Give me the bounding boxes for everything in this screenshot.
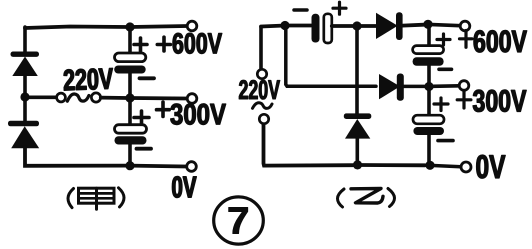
wire: left rail between diodes (upper part) [23,75,27,96]
label: (乙) [338,189,395,208]
wire: to +600V terminal [432,25,460,26]
wire: C2 bottom lead [128,144,132,165]
wire: C-series to shunt junction [332,24,353,28]
wire: C4 top lead [427,26,431,46]
plus mark C4 [437,34,450,45]
minus mark C-upper-left [140,76,155,80]
node: bottom rail / shunt diode junction [353,160,362,169]
node: +600V rail / C4 junction [423,20,432,29]
figure number circle 7 [214,197,264,244]
minus mark C4 [439,68,452,72]
label: 0V (left) [172,176,196,197]
terminal: +600V (left circuit) [187,21,197,31]
minus mark C-series [294,8,307,12]
wire: branch from top junction down to second row [286,28,376,87]
plus of +300V label (right) [457,91,471,109]
terminal: +600V (right circuit) [460,21,470,31]
plus of +300V label (left) [157,102,170,117]
node: middle rail / C junction [125,93,134,102]
wire: shunt junction to top diode [361,24,376,28]
wire: C4 bottom lead [427,66,431,85]
node: +300V rail junction [424,82,433,91]
wire: AC terminal to capacitor column and +300V terminal [101,96,188,101]
terminal: AC right [91,93,100,102]
node: top junction to lower branch [280,21,289,30]
minus mark C-lower-left [137,147,152,151]
plus mark C-lower-left [134,111,149,124]
wire: C2 top lead [128,99,132,125]
node: shunt diode top junction [352,21,361,30]
wire: C5 top lead [427,89,431,116]
terminal: AC bottom (right circuit) [259,114,268,123]
plus of +600V label (right) [460,31,473,48]
label: 600V (right) [474,30,527,52]
wire: to +300V terminal [433,84,459,88]
wire: left rail between junction and lower diode [23,98,27,121]
wire: shunt diode upper lead [355,28,359,114]
capacitor C4 plates [413,46,444,54]
node: bottom rail / C junction [125,161,134,170]
label: 220V (right) [239,80,280,99]
capacitor C-upper-left plates [115,53,146,62]
wire: C1 top lead [128,28,132,54]
node: junction left rail / AC wire [20,92,29,101]
label: 220V (left) [64,68,113,90]
capacitor C-lower-left plates [115,125,147,134]
wire: C1 bottom lead [128,73,132,97]
plus mark C-upper-left [134,38,147,52]
label: 600V (left) [173,33,222,54]
plus mark C5 [434,98,448,111]
AC tilde (right) [253,103,273,109]
wire: C5 bottom lead [427,135,431,166]
wire: left rail lower segment + bottom rail [25,147,187,167]
minus mark C5 [438,139,453,143]
terminal: AC top (right circuit) [257,69,266,78]
label: 300V (left) [171,104,226,125]
label: (甲) [68,188,124,210]
terminal: AC left [57,93,66,102]
terminal: 0V (left circuit) [187,162,197,172]
node: bottom rail / C5 junction [425,161,434,170]
capacitor C5 plates [413,115,444,124]
wire: bottom rail to 0V terminal [433,166,461,167]
wire: left rail upper segment [23,27,27,52]
capacitor C-series plates [312,14,320,43]
node: top rail / C1 junction [125,22,134,31]
terminal: 0V (right circuit) [461,162,471,172]
diode (middle, pointing right) [379,74,404,101]
wire: bottom rail middle segment [360,163,425,167]
terminal: +300V (left circuit) [187,94,197,104]
wire: top diode to C4 junction [403,23,425,28]
wire: input top lead [259,27,263,69]
plus mark C-series [333,2,346,14]
terminal: +300V (right circuit) [459,81,469,91]
diode (shunt, pointing up) [344,113,372,138]
wire: AC wire from left rail to left AC terminal [27,96,57,100]
label: 300V (right) [473,90,526,112]
diode (top, pointing right) [376,12,403,40]
label: 0V (right) [477,155,506,178]
diode (left upper, pointing up) [11,52,40,77]
plus of +600V label (left) [157,37,170,51]
wire: middle diode to C junction [404,85,426,89]
AC tilde between terminals [67,94,89,101]
diode (left lower, pointing up) [8,121,39,149]
wire: shunt diode lower lead [355,138,359,165]
wire: top rail right circuit [261,26,311,27]
wire: input bottom lead + bottom rail [264,125,354,166]
wire: top rail left circuit [25,26,188,28]
